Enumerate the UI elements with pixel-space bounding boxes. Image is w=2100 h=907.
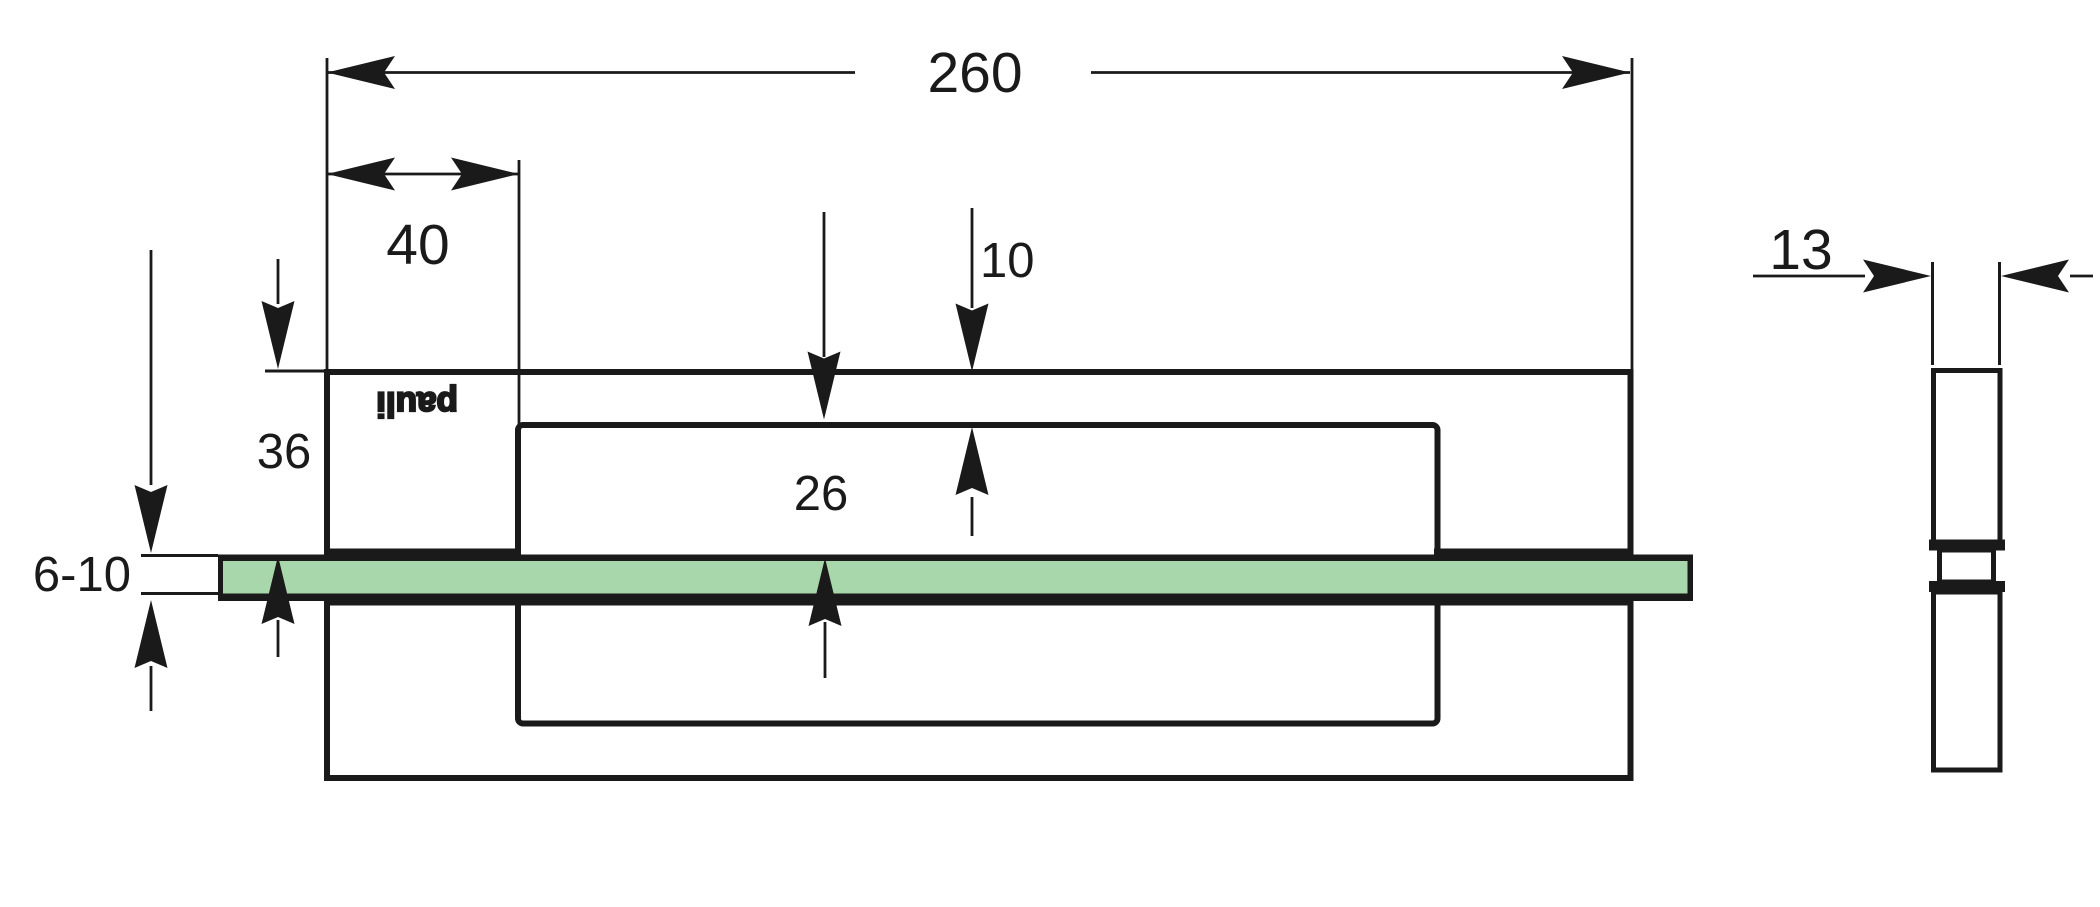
svg-text:6-10: 6-10 bbox=[33, 548, 131, 602]
svg-text:260: 260 bbox=[927, 41, 1022, 105]
svg-text:36: 36 bbox=[257, 425, 312, 479]
svg-text:pauli: pauli bbox=[376, 385, 458, 424]
svg-text:10: 10 bbox=[980, 234, 1035, 288]
svg-text:40: 40 bbox=[386, 213, 449, 277]
svg-text:26: 26 bbox=[794, 467, 849, 521]
svg-text:13: 13 bbox=[1769, 218, 1832, 282]
